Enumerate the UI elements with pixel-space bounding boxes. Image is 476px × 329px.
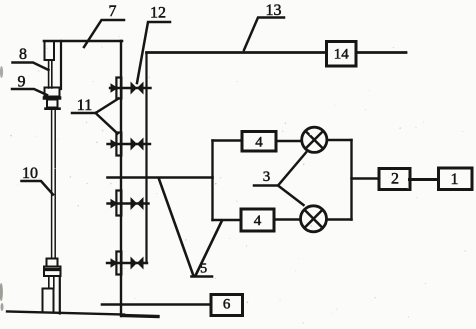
tube 10 left line — [51, 110, 53, 259]
filter box 4 top — [242, 132, 276, 152]
row 2 gate valve bowtie — [131, 138, 138, 151]
svg-text:13: 13 — [266, 2, 282, 19]
svg-text:4: 4 — [254, 213, 262, 229]
flange 9 bolt row — [45, 96, 60, 100]
tube 10 right line — [54, 110, 56, 259]
reference labels with leader lines — [12, 18, 306, 277]
loop right wall — [350, 140, 352, 220]
svg-text:7: 7 — [109, 3, 117, 20]
instrument box 14 — [327, 42, 357, 67]
svg-text:3: 3 — [263, 169, 271, 185]
top pipe 13 right segment — [357, 51, 406, 54]
svg-text:10: 10 — [22, 165, 38, 182]
loop top-right segment — [327, 139, 352, 141]
top pipe 13 left segment — [147, 51, 327, 54]
row 1 gate valve bowtie — [131, 82, 138, 95]
bottom block bolt marks — [46, 268, 59, 271]
row 2 wall port rect — [116, 133, 121, 156]
svg-text:5: 5 — [200, 262, 207, 277]
pump top circle — [302, 127, 327, 152]
flange block 9 lower — [47, 100, 58, 108]
svg-text:6: 6 — [223, 297, 231, 313]
label 10 leader — [22, 181, 54, 195]
vessel 7 right wall — [120, 41, 122, 316]
svg-text:1: 1 — [451, 171, 459, 188]
base block — [43, 289, 54, 313]
ground line — [7, 312, 124, 315]
row 3 stub pipe — [108, 202, 149, 204]
svg-text:11: 11 — [77, 97, 92, 114]
collector box 6 — [211, 295, 243, 316]
label 3 leaders — [254, 153, 306, 206]
row 3 check valve triangle — [111, 199, 119, 209]
loop top-mid segment — [276, 140, 302, 142]
pipe box 2 to box 1 — [410, 178, 439, 181]
instrument box 2 — [379, 169, 410, 190]
manifold header line 12 vertical — [145, 53, 147, 264]
cylinder 8 — [45, 41, 55, 60]
svg-text:9: 9 — [18, 74, 26, 91]
main pipe to loop — [108, 176, 213, 179]
bottom collar — [47, 259, 58, 267]
label 8 leader — [13, 63, 49, 71]
row 4 wall port rect — [116, 252, 121, 275]
svg-text:4: 4 — [255, 134, 263, 150]
row 3 gate valve bowtie — [131, 197, 138, 210]
bottom tube segment — [48, 276, 50, 289]
pump bottom X — [305, 210, 323, 228]
flange 9 bottom plate — [46, 107, 60, 110]
svg-text:12: 12 — [150, 5, 166, 22]
label 12 leader — [137, 22, 170, 83]
vessel 7 top edge — [44, 40, 122, 43]
loop bottom-right segment — [327, 218, 352, 220]
flange block 9 upper — [45, 88, 60, 97]
valve rows — [107, 88, 151, 263]
svg-text:2: 2 — [391, 171, 399, 188]
filter box 4 bottom — [241, 209, 274, 231]
pump top X — [306, 131, 323, 148]
row 2 check valve triangle — [111, 139, 119, 149]
row 1 stub pipe — [110, 87, 151, 89]
pump bottom circle — [301, 206, 327, 232]
loop left wall — [211, 141, 213, 221]
row 4 stub pipe — [107, 262, 147, 264]
row 4 gate valve bowtie — [131, 257, 138, 270]
pipe loop to box 2 — [352, 177, 380, 179]
ground line thick right part — [122, 316, 158, 317]
label 13 leader — [244, 18, 284, 51]
instrument box 1 — [439, 168, 473, 190]
row 3 wall port rect — [116, 191, 121, 216]
row 1 check valve triangle — [111, 83, 119, 93]
rod below cylinder 8 — [48, 60, 50, 88]
bottom block — [44, 267, 61, 277]
bottom right support line — [59, 276, 61, 314]
svg-text:14: 14 — [334, 47, 350, 63]
label 9 leader — [12, 89, 47, 95]
label 5 leaders — [159, 179, 222, 277]
row 2 stub pipe — [108, 143, 151, 145]
row 1 wall port rect — [116, 78, 121, 99]
vessel 7 left wall — [60, 41, 62, 89]
loop bottom-left segment — [213, 219, 242, 221]
bottom pipe to box 6 — [102, 303, 211, 306]
label 11 leaders — [72, 99, 119, 134]
label 7 leader — [84, 20, 124, 47]
row 4 check valve triangle — [111, 258, 119, 268]
loop bottom-mid segment — [274, 218, 300, 220]
svg-text:8: 8 — [19, 46, 27, 63]
loop top-left segment — [213, 139, 243, 141]
